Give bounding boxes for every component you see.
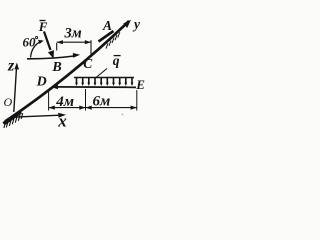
leader line from q to load <box>96 69 107 78</box>
svg-text:O: O <box>4 95 13 109</box>
svg-text:4м: 4м <box>55 94 74 110</box>
support hatching at O <box>4 113 23 128</box>
svg-text:x: x <box>57 111 67 130</box>
x axis arrowhead <box>58 113 66 118</box>
svg-text:D: D <box>36 75 47 90</box>
fixed support bar near A <box>99 31 114 42</box>
z axis <box>14 66 17 112</box>
z axis arrowhead <box>14 63 19 70</box>
svg-text:F: F <box>38 19 48 34</box>
beam along y axis from O to arrow <box>5 21 129 122</box>
svg-text:B: B <box>51 60 61 75</box>
x axis <box>12 115 60 117</box>
svg-text:A: A <box>102 18 112 33</box>
dimension 4m line with arrows <box>49 107 86 109</box>
y axis arrowhead <box>123 20 131 28</box>
horizontal reference arrow through B <box>27 56 74 59</box>
distributed load arrows <box>77 78 133 83</box>
fixed support bar at O <box>4 112 22 124</box>
svg-text:z: z <box>7 57 15 74</box>
svg-text:3м: 3м <box>64 25 82 41</box>
svg-text:60: 60 <box>23 35 37 50</box>
dimension 6m line with arrows <box>86 107 137 109</box>
60 degree angle arc with arrowhead <box>31 42 41 58</box>
svg-text:C: C <box>83 56 93 71</box>
force F arrow <box>44 32 51 51</box>
distributed load top line <box>74 77 134 79</box>
dimension 3m line with arrows <box>57 41 91 43</box>
svg-text:E: E <box>135 77 145 92</box>
bottom dimension extension lines <box>48 91 50 111</box>
svg-text:6м: 6м <box>93 93 111 109</box>
svg-text:y: y <box>132 17 141 32</box>
base line D to E with arrow at D <box>55 86 136 88</box>
small speck <box>122 114 124 116</box>
support hatching near A <box>106 32 120 48</box>
dimension 3m: extension lines <box>56 43 58 51</box>
